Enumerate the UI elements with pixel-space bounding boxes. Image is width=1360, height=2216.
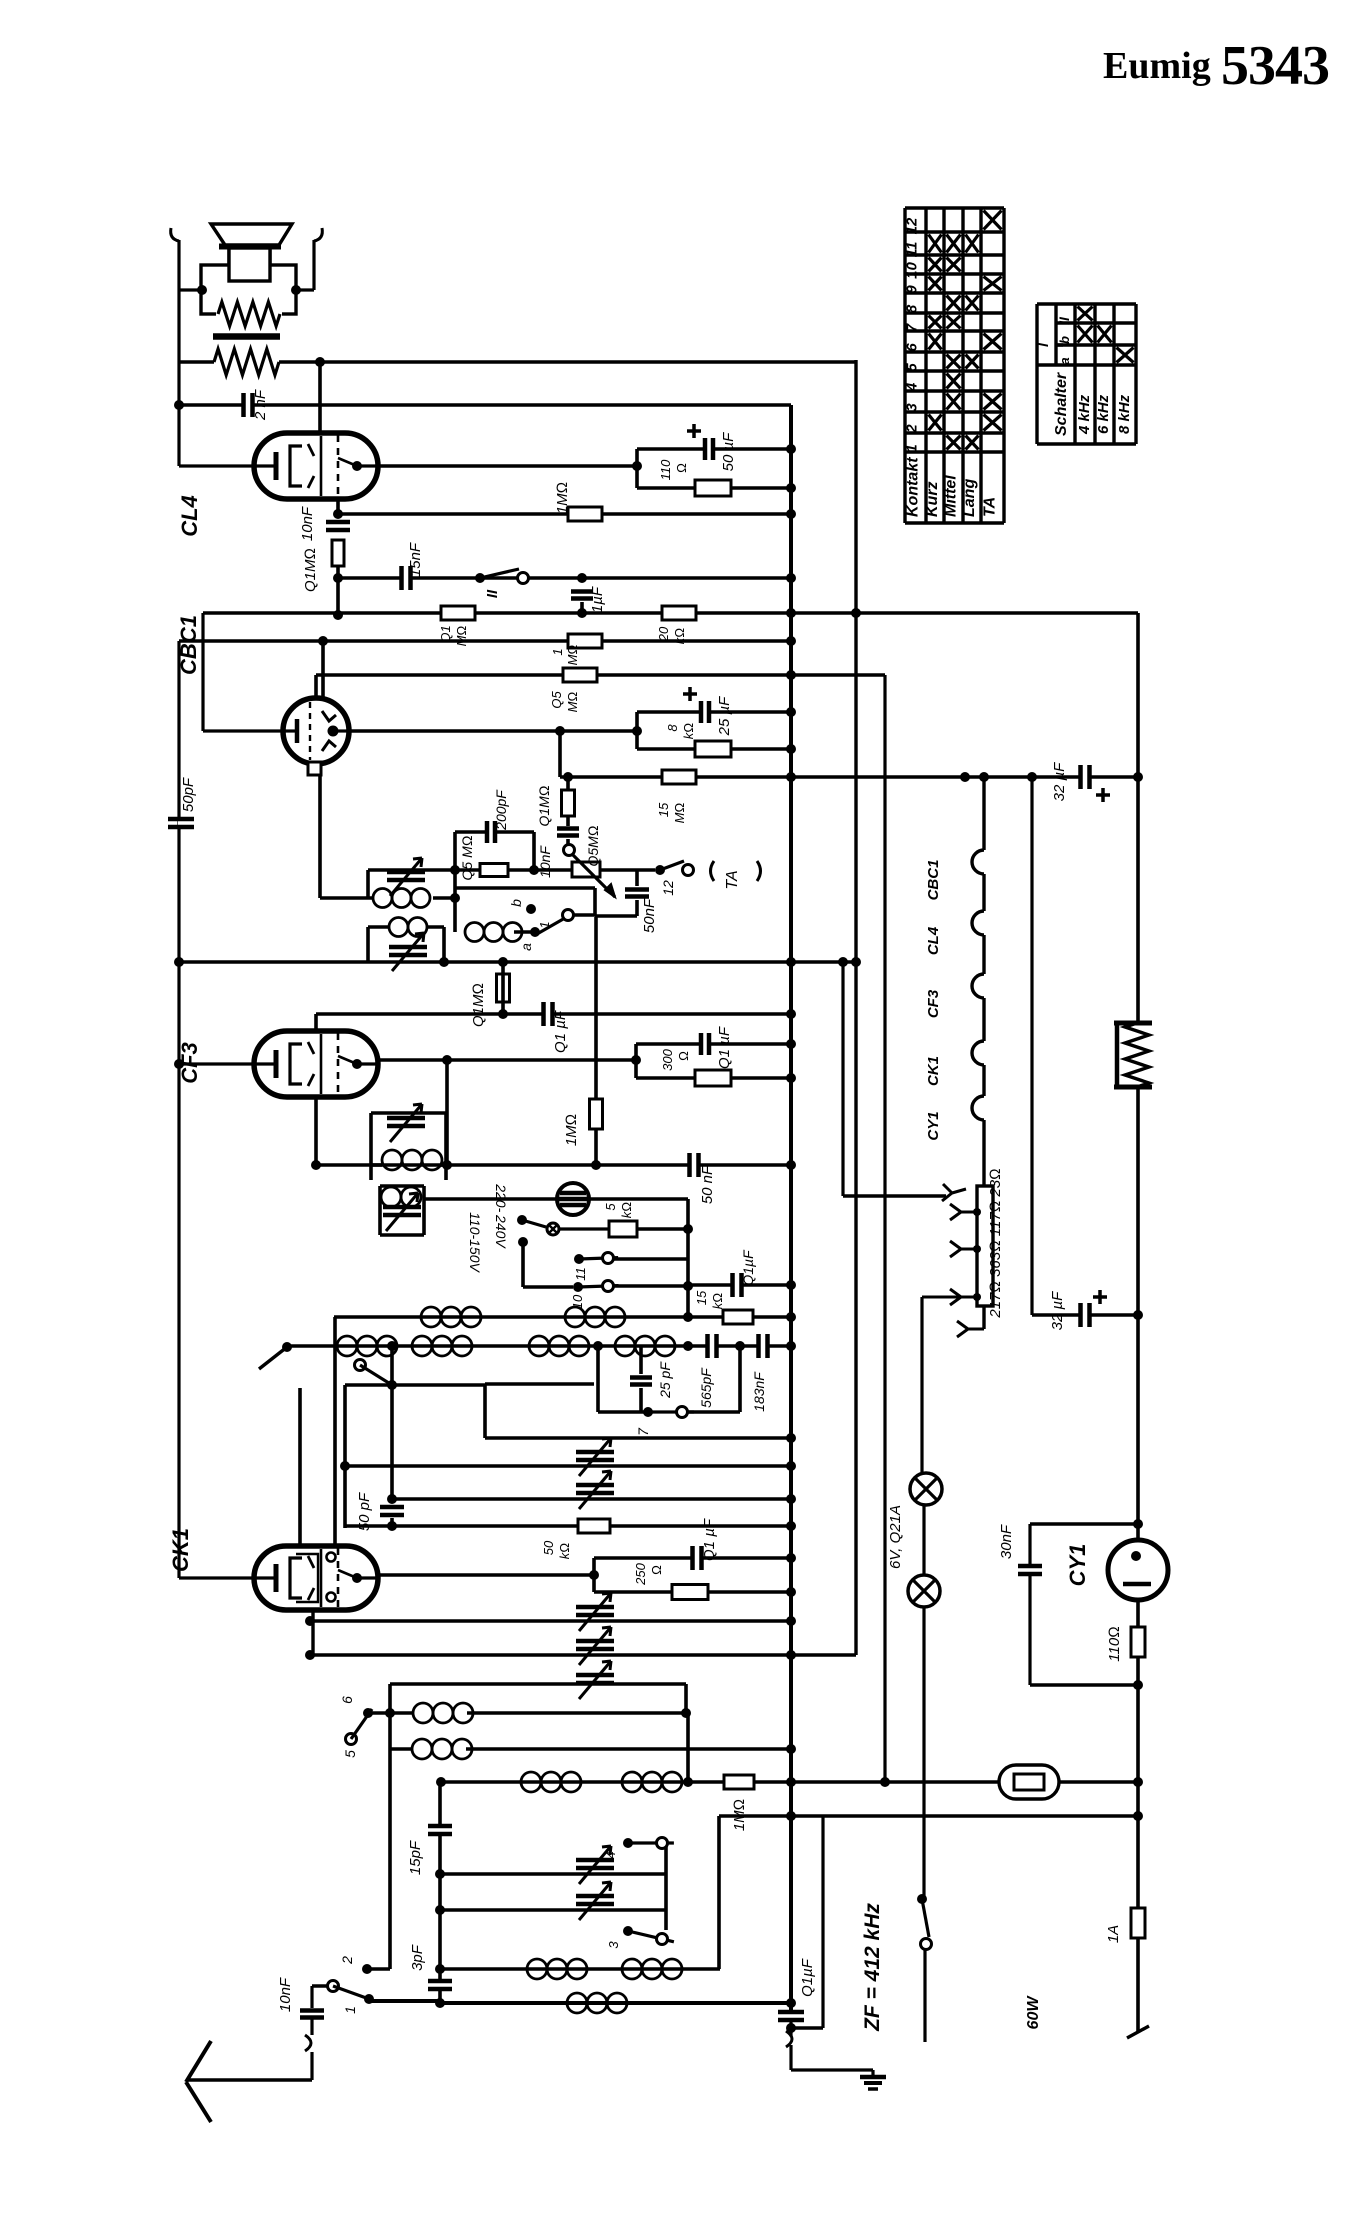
svg-text:Q1 µF: Q1 µF [716,1026,733,1069]
svg-text:8: 8 [665,724,680,732]
svg-text:12: 12 [904,217,921,234]
svg-text:30nF: 30nF [998,1524,1015,1559]
svg-text:Kurz: Kurz [924,481,941,517]
svg-text:6V, Q21A: 6V, Q21A [887,1505,904,1569]
svg-text:7: 7 [904,323,921,332]
svg-text:CL4: CL4 [177,495,202,537]
svg-text:10nF: 10nF [299,506,316,541]
svg-text:11: 11 [904,242,921,258]
svg-text:kΩ: kΩ [557,1543,572,1560]
svg-text:10nF: 10nF [537,845,553,878]
svg-text:10nF: 10nF [277,1977,294,2012]
svg-text:2: 2 [904,424,921,434]
svg-text:5: 5 [904,363,921,372]
svg-text:kΩ: kΩ [681,723,696,740]
svg-text:Q1µF: Q1µF [799,1958,816,1997]
svg-text:b: b [1057,336,1072,344]
svg-text:15: 15 [694,1290,709,1305]
svg-text:Q1MΩ: Q1MΩ [470,983,487,1027]
svg-text:TA: TA [982,497,999,517]
svg-text:Q1 µF: Q1 µF [701,1518,718,1561]
svg-text:25 µF: 25 µF [716,696,733,736]
svg-text:50nF: 50nF [641,898,658,933]
svg-text:1: 1 [904,444,921,452]
svg-text:1: 1 [537,921,552,928]
svg-text:a: a [518,943,534,951]
svg-text:b: b [508,899,524,907]
svg-text:4 kHz: 4 kHz [1076,394,1093,435]
svg-text:MΩ: MΩ [454,626,469,647]
svg-text:250: 250 [633,1562,648,1585]
svg-text:Q5MΩ: Q5MΩ [585,825,601,866]
svg-text:10: 10 [904,262,921,279]
svg-text:Ω: Ω [674,463,689,473]
svg-text:3: 3 [606,1941,621,1949]
svg-text:1MΩ: 1MΩ [563,1114,580,1146]
svg-text:1A: 1A [1105,1925,1122,1943]
svg-text:183nF: 183nF [751,1371,767,1412]
svg-text:6: 6 [904,343,921,352]
svg-text:Kontakt: Kontakt [905,457,922,517]
svg-text:5: 5 [342,1750,358,1758]
svg-text:60W: 60W [1025,1995,1042,2030]
svg-text:217Ω 363Ω 117Ω 23Ω: 217Ω 363Ω 117Ω 23Ω [987,1168,1004,1318]
svg-text:300: 300 [660,1048,675,1070]
svg-text:50pF: 50pF [180,777,197,812]
svg-text:12: 12 [660,880,676,896]
svg-text:3pF: 3pF [409,1944,426,1971]
svg-text:CBC1: CBC1 [176,615,201,675]
svg-text:32 µF: 32 µF [1049,1291,1066,1330]
svg-text:1: 1 [550,648,565,655]
svg-text:110: 110 [658,459,673,480]
svg-text:25 pF: 25 pF [657,1361,673,1399]
svg-text:50: 50 [541,1540,556,1555]
svg-text:Schalter: Schalter [1053,372,1070,436]
svg-text:110-150V: 110-150V [467,1212,483,1273]
svg-text:8 kHz: 8 kHz [1116,394,1133,434]
svg-text:1µF: 1µF [589,586,606,613]
svg-text:220- 240V: 220- 240V [493,1183,509,1249]
svg-text:4: 4 [904,382,921,392]
svg-text:50 µF: 50 µF [720,432,737,471]
svg-text:Q1 µF: Q1 µF [552,1010,569,1053]
svg-text:II: II [1056,316,1072,325]
svg-text:Eumig: Eumig [1103,45,1211,87]
svg-text:kΩ: kΩ [710,1293,725,1310]
svg-text:MΩ: MΩ [565,645,580,666]
svg-text:200pF: 200pF [493,789,509,831]
svg-text:Q1µF: Q1µF [740,1249,756,1286]
svg-text:110Ω: 110Ω [1106,1626,1123,1661]
svg-text:5: 5 [603,1203,618,1211]
svg-text:2: 2 [339,1956,355,1965]
svg-text:CY1: CY1 [1065,1544,1090,1587]
svg-text:Q5 MΩ: Q5 MΩ [459,835,475,880]
svg-text:2 nF: 2 nF [252,389,269,421]
svg-text:CK1: CK1 [925,1056,942,1086]
svg-text:CK1: CK1 [168,1528,193,1572]
svg-text:Q1MΩ: Q1MΩ [302,548,319,592]
svg-text:8: 8 [904,304,921,313]
svg-text:50 nF: 50 nF [699,1165,716,1204]
svg-text:TA: TA [724,870,741,889]
svg-text:CY1: CY1 [925,1111,942,1140]
svg-text:1: 1 [342,2006,358,2014]
svg-text:11: 11 [573,1267,588,1281]
svg-text:Q5: Q5 [549,691,564,709]
svg-text:CL4: CL4 [925,926,942,955]
svg-text:Q1MΩ: Q1MΩ [536,785,552,826]
svg-text:7: 7 [635,1427,651,1436]
svg-text:Mittel: Mittel [943,475,960,517]
svg-text:MΩ: MΩ [672,803,687,824]
svg-text:ZF = 412 kHz: ZF = 412 kHz [861,1903,884,2032]
svg-text:6 kHz: 6 kHz [1095,394,1112,434]
svg-text:32 µF: 32 µF [1051,762,1068,801]
svg-text:II: II [484,589,501,598]
svg-text:Lang: Lang [961,479,978,517]
svg-text:6: 6 [339,1696,355,1704]
svg-text:CBC1: CBC1 [925,860,942,901]
svg-text:15pF: 15pF [407,1840,424,1875]
svg-text:kΩ: kΩ [619,1202,634,1219]
svg-text:15nF: 15nF [407,542,424,577]
svg-text:1MΩ: 1MΩ [554,482,571,514]
svg-text:MΩ: MΩ [565,692,580,713]
svg-text:565pF: 565pF [698,1367,714,1408]
svg-text:CF3: CF3 [925,989,942,1018]
svg-text:5343: 5343 [1221,35,1329,97]
svg-text:4: 4 [603,1851,618,1858]
svg-text:Ω: Ω [649,1565,664,1575]
svg-text:9: 9 [904,285,921,294]
svg-text:a: a [1057,357,1072,364]
svg-text:15: 15 [656,802,671,817]
svg-text:Ω: Ω [676,1051,691,1061]
svg-text:3: 3 [904,403,921,412]
